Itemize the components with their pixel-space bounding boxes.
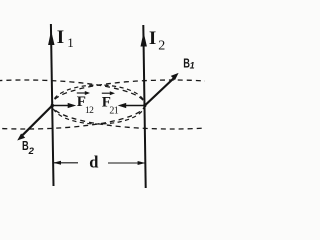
vector hat over F12 <box>77 92 87 94</box>
svg-text:2: 2 <box>158 38 165 53</box>
field-line ellipse of wire 1 (large dashed) <box>0 80 145 129</box>
svg-text:21: 21 <box>109 105 118 116</box>
B1 vector arrow (up-right from wire 2) <box>145 78 175 106</box>
svg-text:12: 12 <box>85 106 94 116</box>
svg-text:d: d <box>89 153 98 172</box>
dimension line right segment with arrowhead at wire 2 <box>108 162 145 164</box>
B2 vector arrow (down-left from wire 1) <box>23 106 53 136</box>
dimension line left segment with arrowhead at wire 1 <box>54 162 79 164</box>
vector hat over F21 <box>102 92 112 94</box>
current arrow on wire 2 <box>141 32 147 47</box>
inner dashed field-line lens between wires <box>52 85 145 124</box>
force arrow F21 (from wire 2 pointing left) <box>124 105 145 107</box>
svg-text:1: 1 <box>67 35 74 50</box>
svg-text:1: 1 <box>190 60 195 70</box>
field-line ellipse of wire 2 (large dashed) <box>52 80 292 129</box>
wire 2 (right conductor) <box>143 25 145 188</box>
junction node on wire 2 <box>143 104 146 107</box>
force arrow F12 (from wire 1 pointing right) <box>52 105 70 107</box>
junction node on wire 1 <box>51 104 54 107</box>
svg-text:2: 2 <box>28 146 35 157</box>
wire 1 (left conductor) <box>51 24 54 186</box>
current arrow on wire 1 <box>48 31 54 46</box>
svg-text:I: I <box>149 28 156 49</box>
svg-text:I: I <box>57 27 64 48</box>
